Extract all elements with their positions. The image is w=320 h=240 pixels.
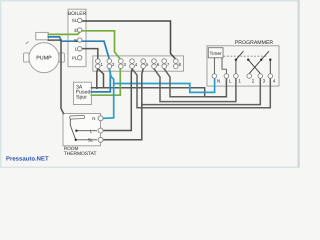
svg-text:SL: SL (88, 138, 94, 143)
programmer terminal 2 (247, 74, 252, 79)
pump right tab (59, 53, 64, 62)
wire: pump live down to room thermostat (48, 40, 63, 113)
timer to N wire (213, 58, 215, 74)
svg-text:THERMOSTAT: THERMOSTAT (64, 151, 97, 157)
pump lug tick (26, 42, 29, 44)
bottom edge line (0, 167, 300, 168)
programmer terminal 3 (258, 74, 263, 79)
wire: boiler L to junction 1 (grey) (80, 49, 98, 59)
junction terminal 8 (174, 59, 182, 69)
svg-text:PROGRAMMER: PROGRAMMER (235, 40, 274, 46)
wire: teal neutral branch to programmer N (114, 78, 215, 92)
mechanical link dashed line (224, 55, 267, 57)
pump body circle (29, 43, 59, 73)
svg-text:1: 1 (238, 78, 241, 83)
programmer terminal 1 (234, 74, 239, 79)
wire: junction 4 / thermostat L riser (103, 69, 132, 131)
timer box (208, 48, 223, 58)
programmer terminal 4 (268, 74, 273, 79)
wire: spur neutral blue to junction 2 (91, 69, 110, 92)
wire: boiler SL to junction 8 (dark grey, top) (80, 21, 176, 59)
programmer box (207, 46, 279, 86)
wire: spur earth green to junction 3 (91, 69, 120, 95)
svg-text:E: E (74, 28, 77, 33)
border frame (1, 1, 300, 168)
switch contact dots (235, 59, 237, 61)
svg-text:N: N (74, 38, 77, 43)
pump terminal box (36, 32, 49, 39)
wire: junction 1 down to fused spur, tee to live feed (98, 69, 104, 88)
wire: junction 7 down to live bus (164, 69, 205, 97)
wire: thermostat L bus to programmer 4 (132, 69, 270, 108)
element lead (69, 119, 71, 125)
junction terminal 7 (162, 59, 170, 69)
wire: earth green pump to boiler E to junction 3 (48, 31, 120, 59)
switch pole 1 blade (236, 51, 244, 60)
pump left tab (24, 53, 29, 62)
wire: thermostat SL riser (103, 69, 143, 140)
wire: live feed from spur to programmer L (91, 78, 226, 97)
junction terminal 4 (130, 59, 138, 69)
junction terminal 2 (107, 59, 115, 69)
contact dot L (75, 130, 77, 132)
svg-text:PUMP: PUMP (36, 56, 52, 62)
room thermostat box (63, 114, 101, 146)
switch pole 4 riser (269, 60, 271, 74)
switch pole 1 riser (235, 60, 237, 74)
thermostat SL contact line (76, 139, 97, 141)
svg-text:N: N (92, 116, 95, 121)
svg-text:4: 4 (273, 78, 276, 83)
fused spur box (73, 82, 91, 104)
svg-text:Timer: Timer (210, 51, 222, 57)
svg-text:2: 2 (252, 78, 255, 83)
svg-text:N: N (217, 78, 220, 83)
boiler box (68, 9, 86, 66)
wire: junction 1 second feed to fused spur (97, 69, 98, 89)
wire: junction 5 / thermostat SL to programmer 3 (142, 78, 260, 104)
contact dot SL (75, 139, 77, 141)
junction box strip (93, 56, 184, 71)
svg-text:L: L (229, 78, 232, 83)
svg-text:BOILER: BOILER (68, 11, 87, 17)
junction terminal 5 (141, 59, 149, 69)
junction terminal 1 (96, 59, 104, 69)
svg-text:Spur: Spur (76, 94, 87, 100)
thermostat element (70, 115, 85, 119)
wire: junction 6 to programmer 1 (154, 69, 236, 102)
svg-text:Pressauto.NET: Pressauto.NET (6, 155, 49, 162)
programmer terminal L (224, 74, 229, 79)
svg-text:ROOM: ROOM (64, 146, 79, 151)
switch crossover t3 (248, 60, 260, 74)
wire: neutral blue pump to boiler N to junction 2 (48, 37, 109, 59)
right edge strip (297, 0, 299, 168)
wire: teal neutral junction 2 to thermostat N (103, 69, 114, 118)
timer to L wire (222, 58, 226, 74)
programmer terminal N (212, 74, 217, 79)
thermostat L contact line (76, 130, 97, 132)
junction terminal 6 (152, 59, 160, 69)
svg-text:SL: SL (72, 18, 78, 23)
svg-text:3: 3 (263, 78, 266, 83)
switch crossover t2 (249, 60, 261, 74)
switch pole 2 blade (261, 51, 269, 60)
junction terminal 3 (119, 59, 127, 69)
switch blade (70, 125, 75, 140)
